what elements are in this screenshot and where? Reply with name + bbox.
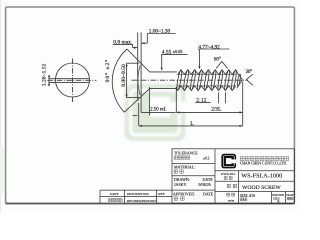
svg-text:JASKY: JASKY bbox=[174, 182, 187, 187]
svg-text:WOOD SCREW: WOOD SCREW bbox=[242, 185, 281, 191]
svg-text:DATE: DATE bbox=[110, 192, 119, 196]
svg-text:2.12: 2.12 bbox=[196, 98, 207, 104]
svg-text:DESCRIPTION: DESCRIPTION bbox=[127, 192, 150, 196]
svg-text:REF.: REF. bbox=[158, 192, 165, 196]
svg-text:±0.2: ±0.2 bbox=[203, 157, 210, 161]
svg-text:L: L bbox=[190, 121, 193, 127]
svg-text:4.77~4.92: 4.77~4.92 bbox=[198, 44, 220, 50]
svg-text:PAGE: PAGE bbox=[286, 193, 294, 197]
svg-text:DWG.NO.: DWG.NO. bbox=[221, 172, 236, 176]
svg-text:1.00~1.30: 1.00~1.30 bbox=[149, 29, 171, 35]
svg-text:A: A bbox=[277, 200, 280, 204]
svg-text:APPROVED:: APPROVED: bbox=[173, 191, 195, 196]
svg-text:90° ±2°: 90° ±2° bbox=[104, 59, 111, 83]
svg-text:EDITION: EDITION bbox=[272, 193, 285, 197]
svg-text:DATE: DATE bbox=[203, 191, 214, 196]
svg-text:0.8 max.: 0.8 max. bbox=[113, 39, 133, 45]
svg-text:8.90~9.50: 8.90~9.50 bbox=[121, 64, 127, 87]
svg-text:REVISED/EDITION: REVISED/EDITION bbox=[127, 199, 157, 203]
svg-text:SIZE: #10: SIZE: #10 bbox=[240, 194, 255, 198]
svg-text:2/3L: 2/3L bbox=[211, 107, 221, 113]
svg-text:60°: 60° bbox=[214, 57, 221, 62]
svg-text:m/m: m/m bbox=[228, 199, 235, 203]
svg-text:TOLERANCE: TOLERANCE bbox=[174, 151, 198, 156]
svg-text:1.26~1.51: 1.26~1.51 bbox=[41, 63, 47, 86]
svg-text:WS-FSLA-1000: WS-FSLA-1000 bbox=[241, 172, 282, 179]
svg-text:MATERIAL:: MATERIAL: bbox=[174, 165, 195, 170]
svg-text:9/08/26: 9/08/26 bbox=[199, 182, 211, 187]
svg-text:30°: 30° bbox=[246, 70, 253, 75]
svg-text:2.50 ref.: 2.50 ref. bbox=[150, 107, 166, 112]
